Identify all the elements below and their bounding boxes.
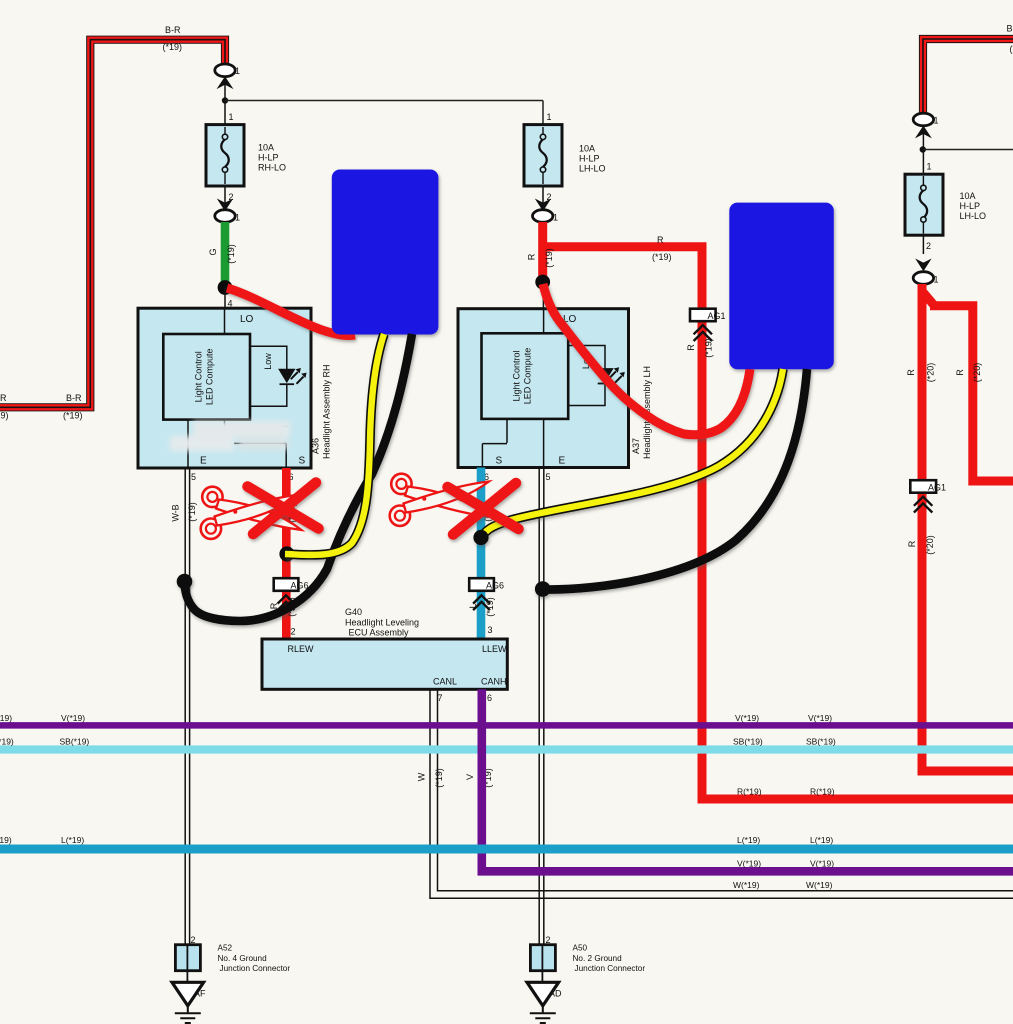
svg-text:W(*19): W(*19)	[806, 880, 833, 890]
svg-text:(*19): (*19)	[485, 597, 495, 617]
svg-text:R(*19): R(*19)	[737, 787, 762, 797]
wire W-B ground wire RH (double line)	[185, 468, 189, 945]
svg-text:A37: A37	[631, 438, 641, 454]
wire internal S path LH	[482, 419, 507, 467]
wire yellow curve LH module to L wire	[482, 369, 783, 538]
wire thin horizontal feed to LH circuit	[225, 100, 543, 102]
svg-text:SB(*19): SB(*19)	[60, 737, 90, 747]
svg-text:R: R	[955, 369, 965, 376]
connector oval LH	[533, 210, 553, 223]
svg-text:2: 2	[291, 627, 296, 637]
LED symbol RH	[279, 368, 307, 384]
svg-text:B-R: B-R	[165, 25, 181, 35]
wire black curve RH module to W-B wire	[185, 334, 413, 621]
LED low beam sub-circuit LH	[568, 346, 605, 406]
svg-text:L(*19): L(*19)	[61, 835, 84, 845]
svg-text:LED Compute: LED Compute	[205, 349, 215, 406]
erased mark RH	[281, 427, 287, 434]
wire B-R battery feed RH (black-red-black)	[0, 40, 225, 408]
svg-text:AD: AD	[549, 989, 562, 999]
svg-text:(*19): (*19)	[652, 252, 672, 262]
aftermarket module RH blue box	[332, 170, 439, 335]
wire thin below fuse	[922, 235, 924, 254]
svg-text:S: S	[299, 456, 306, 467]
svg-text:A50: A50	[573, 944, 588, 953]
svg-text:G: G	[208, 248, 218, 255]
svg-text:(*19): (*19)	[226, 244, 236, 264]
svg-text:AF: AF	[194, 989, 206, 999]
svg-text:10A: 10A	[258, 143, 274, 153]
wire thin vertical to fuse	[922, 134, 924, 175]
svg-text:1: 1	[235, 213, 240, 223]
wire B-R battery feed right circuit	[923, 39, 1013, 114]
wire V CANH purple elbow	[482, 689, 1013, 871]
ground symbol AF	[172, 982, 206, 1023]
headlight assembly RH A36 box	[138, 308, 311, 468]
svg-text:1: 1	[927, 162, 932, 172]
wire R red branch right to edge at 481	[922, 291, 1013, 481]
svg-text:L(*19): L(*19)	[737, 835, 760, 845]
node junction dot G wire	[218, 280, 233, 295]
svg-text:1: 1	[934, 275, 939, 285]
svg-text:CANH: CANH	[481, 677, 507, 687]
arrow up into oval	[916, 127, 930, 138]
svg-text:ECU Assembly: ECU Assembly	[349, 628, 410, 638]
svg-text:V(*19): V(*19)	[0, 713, 12, 723]
svg-text:S: S	[496, 456, 503, 467]
svg-text:(*19): (*19)	[434, 768, 444, 788]
svg-text:(*20): (*20)	[926, 363, 936, 383]
svg-text:V(*19): V(*19)	[810, 859, 834, 869]
ground junction connector A50	[530, 944, 555, 982]
svg-text:RLEW: RLEW	[288, 644, 315, 654]
X cut mark RH	[248, 483, 319, 535]
inline connector AG6 left	[274, 578, 309, 610]
LED low beam sub-circuit RH	[250, 346, 287, 406]
wire yellow curve RH module to R wire	[285, 334, 384, 555]
svg-text:R: R	[906, 369, 916, 376]
svg-text:(*20): (*20)	[925, 535, 935, 555]
connector oval 2 right	[913, 272, 933, 285]
svg-text:V(*19): V(*19)	[61, 713, 85, 723]
wire R red feed LH with branch to AG1 and R(*19) bus	[543, 222, 1013, 799]
svg-text:G40: G40	[345, 607, 362, 617]
svg-text:1: 1	[235, 66, 240, 76]
wire thin horizontal feed to right edge	[923, 149, 1013, 151]
light control unit RH inner box	[163, 334, 250, 420]
svg-text:R: R	[527, 253, 537, 260]
svg-text:RH-LO: RH-LO	[258, 163, 286, 173]
svg-text:5: 5	[191, 472, 196, 482]
wire R red down to AG1 and R bus 771	[922, 284, 1013, 771]
svg-text:(*19): (*19)	[0, 411, 9, 421]
wire R from RH S pin to RLEW	[282, 468, 291, 639]
headlight assembly LH A37 box	[458, 309, 629, 468]
ground junction connector A52	[175, 944, 200, 982]
fuse 10A H-LP RH-LO	[206, 125, 244, 186]
svg-text:AG1: AG1	[928, 483, 946, 493]
scissors cut mark RH	[201, 487, 302, 539]
svg-text:(*19): (*19)	[163, 42, 183, 52]
svg-text:Low: Low	[263, 353, 273, 370]
svg-text:V: V	[465, 774, 475, 780]
svg-text:10A: 10A	[579, 144, 595, 154]
wire W CANL (double line elbow to right edge)	[430, 689, 1013, 898]
fuse 10A H-LP LH-LO	[524, 125, 562, 186]
wire black curve LH module to E wire	[545, 369, 807, 590]
wire internal LO entry LH	[543, 309, 545, 334]
svg-text:AG6: AG6	[486, 581, 504, 591]
svg-text:Headlight Assembly RH: Headlight Assembly RH	[322, 364, 332, 459]
svg-text:(*19): (*19)	[63, 411, 83, 421]
svg-text:B-R: B-R	[1007, 24, 1013, 34]
wire thin corner into LH fuse	[542, 101, 544, 125]
scissors cut mark LH	[390, 474, 491, 526]
svg-text:SB(*19): SB(*19)	[806, 737, 836, 747]
svg-text:1: 1	[229, 112, 234, 122]
svg-text:10A: 10A	[960, 191, 976, 201]
svg-text:W-B: W-B	[171, 504, 181, 521]
svg-text:H-LP: H-LP	[960, 201, 981, 211]
wire L from LH S pin to LLEW	[477, 468, 486, 640]
svg-text:No. 4 Ground: No. 4 Ground	[218, 954, 268, 963]
svg-text:SB(*19): SB(*19)	[0, 737, 14, 747]
smudge erased text RH	[170, 421, 290, 451]
svg-text:L(*19): L(*19)	[810, 835, 833, 845]
inline connector AG1 right	[910, 480, 946, 512]
LED symbol LH	[597, 367, 625, 383]
arrow down to oval right	[917, 260, 931, 271]
svg-text:(*19): (*19)	[544, 248, 554, 268]
svg-text:R: R	[657, 235, 664, 245]
svg-text:AG6: AG6	[291, 581, 309, 591]
svg-text:L(*19): L(*19)	[0, 835, 12, 845]
node junction dot black to W-B	[177, 574, 193, 590]
svg-text:E: E	[200, 456, 207, 467]
svg-text:7: 7	[438, 693, 443, 703]
svg-text:V(*19): V(*19)	[808, 713, 832, 723]
svg-text:1: 1	[553, 213, 558, 223]
svg-text:R: R	[269, 602, 279, 609]
svg-text:B-R: B-R	[66, 393, 82, 403]
node junction dot to horizontal feed	[222, 97, 228, 103]
wire internal S path remnants RH	[225, 420, 287, 468]
svg-text:Junction Connector: Junction Connector	[220, 964, 291, 973]
wire red curve LH module to R junction	[543, 284, 750, 435]
svg-text:(*19): (*19)	[704, 338, 714, 358]
inline connector AG6 right	[469, 578, 504, 610]
svg-text:L: L	[468, 603, 478, 608]
node junction dot R wire LH	[535, 275, 550, 290]
wire thin into headlight pin 4	[224, 288, 226, 309]
svg-text:LED Compute: LED Compute	[523, 348, 533, 405]
svg-text:V(*19): V(*19)	[735, 713, 759, 723]
node junction dot yellow to L wire	[473, 530, 488, 545]
svg-text:LO: LO	[240, 314, 254, 325]
svg-text:3: 3	[488, 625, 493, 635]
svg-text:E: E	[559, 456, 566, 467]
svg-text:(*20): (*20)	[972, 363, 982, 383]
X cut mark LH	[448, 483, 519, 535]
node junction dot to horizontal feed	[920, 146, 926, 152]
svg-text:LLEW: LLEW	[482, 644, 507, 654]
ground symbol AD	[527, 982, 562, 1023]
svg-text:(*19): (*19)	[1010, 44, 1013, 54]
svg-text:(*19): (*19)	[187, 502, 197, 522]
ECU G40 box	[262, 639, 507, 689]
wire internal E path RH	[187, 420, 189, 468]
svg-text:R(*19): R(*19)	[810, 787, 835, 797]
svg-text:No. 2 Ground: No. 2 Ground	[573, 954, 623, 963]
connector oval 1 top RH	[215, 64, 235, 77]
svg-text:Light Control: Light Control	[194, 351, 204, 402]
svg-text:B-R: B-R	[0, 393, 7, 403]
arrow up into oval	[218, 77, 232, 88]
bus wire SB sky blue full width	[0, 745, 1013, 753]
svg-text:H-LP: H-LP	[258, 153, 279, 163]
svg-text:6: 6	[487, 693, 492, 703]
inline connector AG1	[690, 309, 726, 341]
arrow down to oval LH	[536, 200, 550, 211]
wire internal E path LH	[543, 419, 545, 467]
svg-text:2: 2	[926, 241, 931, 251]
svg-text:R: R	[907, 540, 917, 547]
svg-text:LH-LO: LH-LO	[960, 211, 987, 221]
svg-text:R: R	[686, 344, 696, 351]
svg-text:Headlight Leveling: Headlight Leveling	[345, 618, 419, 628]
wire thin below fuse	[224, 186, 226, 205]
svg-text:Light Control: Light Control	[512, 350, 522, 401]
connector oval 2 RH	[215, 210, 235, 223]
aftermarket module LH blue box	[729, 203, 834, 370]
svg-text:5: 5	[546, 472, 551, 482]
wire thin below fuse	[542, 186, 544, 205]
bus wire V violet full width	[0, 722, 1013, 729]
svg-text:LH-LO: LH-LO	[579, 164, 606, 174]
svg-text:H-LP: H-LP	[579, 154, 600, 164]
arrow down to oval	[218, 200, 232, 211]
svg-text:1: 1	[934, 116, 939, 126]
node junction dot black to E wire	[535, 581, 551, 597]
wire E ground wire LH (double line)	[539, 468, 544, 945]
connector oval top right circuit	[913, 113, 933, 126]
wire internal LO entry RH	[224, 308, 226, 334]
wire G green to headlight RH	[221, 222, 230, 288]
wire red curve RH module to G junction	[227, 288, 355, 335]
bus wire L blue full width	[0, 845, 1013, 854]
svg-text:1: 1	[547, 112, 552, 122]
svg-text:CANL: CANL	[433, 677, 457, 687]
svg-text:V(*19): V(*19)	[737, 859, 761, 869]
svg-text:SB(*19): SB(*19)	[733, 737, 763, 747]
wire thin vertical to fuse	[224, 84, 226, 125]
svg-text:AG1: AG1	[708, 311, 726, 321]
fuse 10A H-LP LH-LO right	[905, 174, 943, 235]
svg-text:A52: A52	[218, 944, 233, 953]
svg-text:W: W	[417, 772, 427, 781]
light control unit LH inner box	[482, 333, 569, 419]
node junction dot yellow to R wire	[279, 546, 294, 561]
svg-text:A36: A36	[311, 438, 321, 454]
wire thin into headlight pin 4 LH	[542, 282, 544, 309]
svg-text:Junction Connector: Junction Connector	[575, 964, 646, 973]
svg-text:W(*19): W(*19)	[733, 880, 760, 890]
